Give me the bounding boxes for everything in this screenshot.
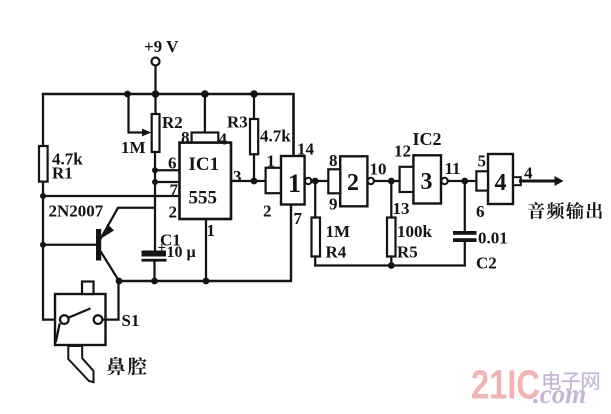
capacitor C1 top plate bbox=[142, 251, 167, 257]
logic gate U2A box 1 bbox=[281, 156, 305, 205]
svg-text:14: 14 bbox=[297, 140, 315, 159]
logic gate U2A input bracket bbox=[266, 168, 281, 193]
svg-text:1M: 1M bbox=[121, 138, 146, 157]
node output arrowhead bbox=[555, 176, 564, 186]
svg-text:8: 8 bbox=[181, 128, 190, 147]
svg-text:8: 8 bbox=[329, 151, 338, 170]
wire R5 top bbox=[390, 181, 392, 218]
svg-text:IC1: IC1 bbox=[189, 154, 220, 175]
svg-text:+9 V: +9 V bbox=[144, 37, 179, 56]
logic gate U2B box 2 bbox=[340, 156, 367, 206]
op-amp U1 IC1 555 top tab bbox=[192, 133, 219, 143]
wire IC1 pin6 bbox=[155, 169, 180, 171]
wire R2 wiper arm bbox=[129, 94, 144, 133]
op-amp U1 IC1 555 body bbox=[180, 143, 232, 219]
switch S1 lever bbox=[69, 309, 90, 318]
resistor R3 bbox=[250, 119, 258, 154]
resistor R5 bbox=[387, 218, 396, 257]
svg-text:R5: R5 bbox=[397, 243, 418, 262]
node junction left column base line bbox=[40, 242, 46, 248]
logic gate U2D input bracket bbox=[476, 171, 488, 190]
label audio output 音频输出 bbox=[528, 202, 602, 219]
logic gate U2C box 3 bbox=[413, 155, 441, 203]
wire R2 top bbox=[154, 94, 156, 114]
svg-text:10 µ: 10 µ bbox=[167, 244, 196, 261]
svg-text:555: 555 bbox=[189, 188, 218, 209]
node junction C2 tap bbox=[461, 178, 468, 185]
node junction R3 pin3 bbox=[251, 178, 258, 185]
label nasal cavity 鼻腔 bbox=[107, 357, 147, 375]
svg-text:10: 10 bbox=[370, 160, 387, 179]
resistor R4 bbox=[312, 218, 321, 257]
node junction R5 tap bbox=[388, 178, 395, 185]
svg-text:R2: R2 bbox=[162, 113, 183, 132]
wire IC1 tab drop bbox=[204, 94, 206, 133]
switch S1 right contact bbox=[94, 315, 103, 324]
node junction bottom bus C1 bbox=[151, 278, 158, 285]
svg-text:C2: C2 bbox=[476, 254, 497, 273]
transistor Q1 2N2007 base bar bbox=[96, 229, 101, 261]
svg-text:7: 7 bbox=[170, 181, 179, 200]
watermark 电子网 bbox=[544, 371, 599, 390]
svg-text:R4: R4 bbox=[326, 243, 347, 262]
resistor R2 bbox=[152, 114, 160, 152]
svg-text:4: 4 bbox=[219, 130, 228, 149]
node emitter arrow bbox=[103, 224, 115, 238]
svg-text:13: 13 bbox=[393, 199, 410, 218]
svg-text:4: 4 bbox=[524, 164, 533, 183]
svg-text:11: 11 bbox=[445, 159, 461, 178]
wire audio output arrow bbox=[520, 180, 555, 183]
svg-text:6: 6 bbox=[168, 154, 177, 173]
wire emitter diagonal and top run bbox=[101, 208, 155, 238]
svg-text:2: 2 bbox=[347, 170, 359, 196]
wire R3 bottom bbox=[253, 154, 255, 181]
switch S1 actuator bbox=[68, 346, 93, 382]
wire left column (R1 bottom to switch) bbox=[43, 182, 60, 320]
wire gate3 to gate4 bbox=[448, 180, 477, 182]
wire left column top (bus to R1) bbox=[42, 94, 44, 146]
svg-text:1: 1 bbox=[207, 221, 216, 240]
wire gate2 to gate3 bbox=[374, 180, 400, 182]
node junction top bus at R2 bbox=[152, 90, 160, 98]
svg-text:4.7k: 4.7k bbox=[260, 127, 291, 146]
svg-text:12: 12 bbox=[394, 142, 411, 161]
wire R3 top bbox=[253, 94, 255, 119]
logic gate U2A output bubble bbox=[305, 178, 311, 184]
node junction top bus at R2 arm bbox=[124, 91, 131, 98]
svg-text:1: 1 bbox=[288, 169, 301, 198]
node +9V terminal bbox=[152, 58, 160, 66]
node junction left column pin2 line bbox=[40, 193, 46, 199]
svg-text:S1: S1 bbox=[122, 311, 140, 330]
switch S1 left contact bbox=[60, 315, 69, 324]
logic gate U2C input bracket bbox=[400, 167, 414, 192]
wire switch right to bottom bus bbox=[103, 281, 119, 320]
logic gate U2D box 4 bbox=[488, 154, 513, 204]
svg-text:5: 5 bbox=[478, 152, 487, 171]
wire C2 top bbox=[464, 181, 466, 231]
wire R4 bottom link to C2 bbox=[315, 242, 465, 266]
wire gate1 to gate2 bbox=[311, 180, 328, 182]
node arrow into R2 bbox=[142, 129, 151, 137]
wire IC1 pin3 output bbox=[231, 180, 266, 182]
node junction bottom bus emitter bbox=[116, 278, 123, 285]
svg-text:2: 2 bbox=[263, 202, 272, 221]
node junction pin6 bbox=[152, 167, 158, 173]
resistor R1 bbox=[39, 146, 48, 182]
svg-text:0.01: 0.01 bbox=[478, 229, 508, 248]
logic gate U2C output bubble bbox=[441, 178, 447, 184]
node junction top bus at IC1 pin8/4 bbox=[201, 90, 209, 98]
svg-text:9: 9 bbox=[329, 195, 338, 214]
svg-text:3: 3 bbox=[421, 169, 433, 195]
svg-text:7: 7 bbox=[294, 209, 303, 228]
wire C1 bottom bbox=[153, 261, 155, 281]
svg-text:.com: .com bbox=[533, 379, 586, 409]
svg-text:4: 4 bbox=[495, 170, 507, 196]
svg-text:6: 6 bbox=[476, 202, 485, 221]
node junction R5 bottom bbox=[388, 262, 395, 269]
wire collector diagonal bbox=[101, 252, 119, 281]
wire R5 bottom bbox=[390, 257, 392, 266]
svg-text:2: 2 bbox=[169, 203, 178, 222]
capacitor C2 top plate bbox=[453, 231, 477, 235]
node junction pin7 bbox=[152, 179, 158, 185]
wire top supply bus with drop to gate1 pin14 bbox=[43, 94, 294, 156]
svg-text:IC2: IC2 bbox=[413, 129, 442, 149]
svg-text:1: 1 bbox=[267, 152, 276, 171]
svg-text:2N2007: 2N2007 bbox=[49, 202, 104, 221]
svg-text:+: + bbox=[158, 241, 167, 257]
capacitor C2 bottom plate bbox=[453, 238, 477, 242]
node junction R4 tap bbox=[312, 178, 319, 185]
logic gate U2B input bracket bbox=[328, 169, 340, 193]
wire bottom ground bus with rise to gate1 pin7 bbox=[119, 205, 291, 282]
wire IC1 pin2 from left column bbox=[43, 195, 180, 197]
wire base line bbox=[43, 244, 96, 246]
wire switch inner mark bbox=[56, 325, 60, 342]
logic gate U2D output bubble bbox=[513, 177, 521, 185]
wire IC1 pin1 down bbox=[205, 219, 207, 281]
switch S1 top tab bbox=[82, 282, 94, 295]
svg-text:R1: R1 bbox=[52, 164, 73, 183]
svg-text:3: 3 bbox=[233, 167, 242, 186]
svg-text:100k: 100k bbox=[397, 222, 433, 241]
wire IC1 pin7 bbox=[155, 181, 180, 183]
switch S1 box bbox=[55, 294, 106, 345]
svg-text:1M: 1M bbox=[326, 222, 351, 241]
svg-text:R3: R3 bbox=[227, 113, 248, 132]
capacitor C1 bottom plate bbox=[142, 259, 167, 262]
node junction top bus at R3 bbox=[250, 90, 258, 98]
node junction bottom bus pin1 bbox=[203, 278, 210, 285]
wire +9V drop bbox=[154, 66, 156, 94]
svg-text:21IC: 21IC bbox=[471, 362, 540, 408]
wire R4 top bbox=[314, 181, 316, 218]
wire R2 bottom column down to C1 bbox=[154, 152, 156, 251]
logic gate U2B output bubble bbox=[368, 178, 374, 184]
